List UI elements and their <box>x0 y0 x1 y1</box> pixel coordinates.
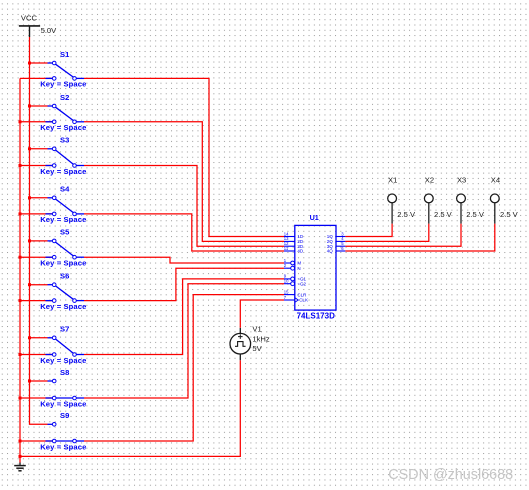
wire ground collector bus <box>19 78 21 462</box>
svg-text:S9: S9 <box>60 411 69 420</box>
junction on ground collector at S7 <box>19 353 22 356</box>
wire S1 bottom throw to ground collector <box>20 77 52 79</box>
switch S4 feed wire from VCC bus <box>30 197 48 199</box>
wire S7 pole to U1 <box>84 279 284 355</box>
switch S7 feed wire from VCC bus <box>30 337 48 339</box>
svg-text:S8: S8 <box>60 368 69 377</box>
svg-text:Key = Space: Key = Space <box>40 442 86 451</box>
svg-text:15: 15 <box>284 289 289 294</box>
svg-text:Key = Space: Key = Space <box>40 259 86 268</box>
wire S2 pole to U1 <box>84 122 284 242</box>
wire S8 pole to U1 <box>84 284 284 398</box>
pin name CLK <box>295 298 298 303</box>
pin 2 (N) stub <box>284 267 291 269</box>
svg-text:Key = Space: Key = Space <box>40 123 86 132</box>
svg-text:11: 11 <box>284 246 289 251</box>
ground <box>14 463 26 471</box>
wire S5 bottom throw to ground collector <box>20 256 52 258</box>
pin 7 (CLK) stub <box>284 299 295 301</box>
svg-text:2.5 V: 2.5 V <box>434 210 453 219</box>
svg-text:S2: S2 <box>60 93 69 102</box>
svg-text:1kHz: 1kHz <box>252 334 270 343</box>
svg-text:Key = Space: Key = Space <box>40 167 86 176</box>
svg-text:5V: 5V <box>252 344 262 353</box>
junction on VCC bus at S5 <box>28 239 31 242</box>
wire S4 pole to U1 <box>84 214 284 251</box>
switch S2 feed wire from VCC bus <box>30 105 48 107</box>
junction on VCC bus at S1 <box>28 62 31 65</box>
wire S3 bottom throw to ground collector <box>20 165 52 167</box>
wire S1 pole to U1 <box>84 78 284 236</box>
switch S3 (SPDT, Key = Space) <box>46 147 85 167</box>
junction on VCC bus at S6 <box>28 283 31 286</box>
svg-text:U1: U1 <box>310 213 319 222</box>
svg-text:Key = Space: Key = Space <box>40 215 86 224</box>
svg-text:4D: 4D <box>297 249 304 254</box>
switch S4 (SPDT, Key = Space) <box>46 196 85 216</box>
svg-text:4Q: 4Q <box>327 249 334 254</box>
switch S7 (SPDT, Key = Space) <box>46 336 85 356</box>
junction on ground collector at S9 <box>19 440 22 443</box>
junction on ground collector at S5 <box>19 256 22 259</box>
svg-text:74LS173D: 74LS173D <box>297 312 335 321</box>
svg-text:5.0V: 5.0V <box>41 26 58 35</box>
probe X3 <box>457 194 466 224</box>
pin 9 (~G1) stub <box>284 278 291 280</box>
wire 4Q output to probe X4 <box>345 224 494 251</box>
junction on ground collector at S2 <box>19 120 22 123</box>
switch S1 (SPDT, Key = Space) <box>46 61 85 80</box>
junction on ground collector at S6 <box>19 299 22 302</box>
svg-text:Key = Space: Key = Space <box>40 302 86 311</box>
op-amp U1 74LS173D register box <box>295 225 336 310</box>
svg-text:2.5 V: 2.5 V <box>397 210 416 219</box>
power symbol VCC <box>19 14 40 37</box>
wire 3Q output to probe X3 <box>345 224 461 247</box>
probe X4 <box>490 194 499 224</box>
junction on ground collector at S4 <box>19 212 22 215</box>
wire S9 bottom throw to ground collector <box>20 440 52 442</box>
pin 1 (M) stub <box>284 262 291 264</box>
probe X1 <box>388 194 397 224</box>
svg-text:V1: V1 <box>252 325 261 334</box>
svg-text:2.5 V: 2.5 V <box>466 210 485 219</box>
svg-text:S6: S6 <box>60 272 69 281</box>
svg-text:Key = Space: Key = Space <box>40 399 86 408</box>
svg-text:CLK: CLK <box>299 298 308 303</box>
switch S6 (SPDT, Key = Space) <box>46 283 85 303</box>
svg-text:N: N <box>297 266 300 271</box>
svg-text:S3: S3 <box>60 136 69 145</box>
svg-text:X2: X2 <box>425 176 434 185</box>
wire ground to V1 bottom <box>20 360 240 456</box>
switch S8 feed wire from VCC bus <box>30 380 48 382</box>
switch S8 (SPDT, Key = Space) <box>46 379 85 400</box>
wire S7 bottom throw to ground collector <box>20 354 52 356</box>
svg-text:S7: S7 <box>60 325 69 334</box>
svg-text:2.5 V: 2.5 V <box>500 210 519 219</box>
svg-text:X4: X4 <box>491 176 500 185</box>
pin 6 (4Q) stub <box>336 250 345 252</box>
junction on ground collector at S3 <box>19 164 22 167</box>
junction on VCC bus at S7 <box>28 336 31 339</box>
switch S3 feed wire from VCC bus <box>30 148 48 150</box>
svg-text:S5: S5 <box>60 228 70 237</box>
switch S5 (SPDT, Key = Space) <box>46 239 85 259</box>
pin 15 (CLR) stub <box>284 294 295 296</box>
pin 12 (3D) stub <box>284 245 295 247</box>
wire S2 bottom throw to ground collector <box>20 121 52 123</box>
wire V1 to CLK pin 7 <box>240 300 284 328</box>
switch S9 (SPDT, Key = Space) <box>46 423 85 443</box>
pin 10 (~G2) stub <box>284 283 291 285</box>
wire S9 pole to U1 <box>84 295 284 441</box>
switch S5 feed wire from VCC bus <box>30 240 48 242</box>
junction on VCC bus at S8 <box>28 380 31 383</box>
pin 4 (2Q) stub <box>336 240 345 242</box>
svg-text:~G2: ~G2 <box>297 281 306 286</box>
wire 2Q output to probe X2 <box>345 224 428 242</box>
junction at ground/V1 branch <box>19 455 22 458</box>
wire S3 pole to U1 <box>84 166 284 247</box>
pin 11 (4D) stub <box>284 250 295 252</box>
junction on VCC bus at S4 <box>28 196 31 199</box>
wire S4 bottom throw to ground collector <box>20 213 52 215</box>
junction on VCC bus at S3 <box>28 147 31 150</box>
wire S6 bottom throw to ground collector <box>20 300 52 302</box>
svg-text:CSDN @zhusl6688: CSDN @zhusl6688 <box>388 467 513 483</box>
svg-text:S4: S4 <box>60 185 70 194</box>
pin 13 (2D) stub <box>284 240 295 242</box>
wire VCC bus <box>30 37 48 424</box>
switch S6 feed wire from VCC bus <box>30 284 48 286</box>
wire S8 bottom throw to ground collector <box>20 397 52 399</box>
pin 3 (1Q) stub <box>336 236 345 238</box>
pin 5 (3Q) stub <box>336 245 345 247</box>
clock source V1 <box>230 328 251 360</box>
svg-text:X3: X3 <box>457 176 466 185</box>
probe X2 <box>424 194 433 224</box>
svg-text:Key = Space: Key = Space <box>40 356 86 365</box>
svg-text:Key = Space: Key = Space <box>40 80 86 89</box>
switch S2 (SPDT, Key = Space) <box>46 104 85 123</box>
svg-text:X1: X1 <box>388 176 397 185</box>
pin 14 (1D) stub <box>284 236 295 238</box>
switch S1 feed wire from VCC bus <box>30 62 48 64</box>
junction on ground collector at S8 <box>19 397 22 400</box>
svg-text:10: 10 <box>284 279 289 284</box>
wire S5 pole to U1 <box>84 257 284 263</box>
svg-text:S1: S1 <box>60 50 70 59</box>
wire S6 pole to U1 <box>84 268 284 300</box>
svg-text:VCC: VCC <box>21 14 38 23</box>
wire 1Q output to probe X1 <box>345 224 392 237</box>
svg-text:CLR: CLR <box>297 292 307 297</box>
junction on VCC bus at S2 <box>28 105 31 108</box>
